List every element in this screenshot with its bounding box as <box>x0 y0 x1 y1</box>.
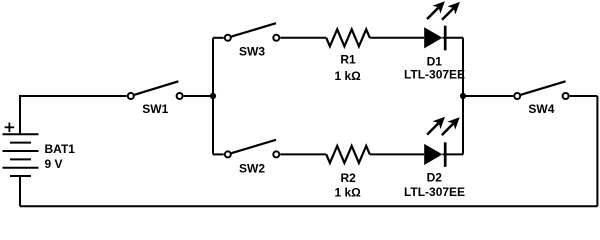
svg-text:SW1: SW1 <box>142 102 168 116</box>
resistor R1 <box>326 29 370 46</box>
plate long 1 <box>3 133 39 135</box>
switch SW4 <box>514 81 568 99</box>
wire: bottom rail <box>20 205 597 207</box>
wire: SW3 to R1 <box>280 37 326 39</box>
wire: branch vertical at node A <box>212 38 214 155</box>
LED D1 <box>423 0 464 50</box>
wire: battery top to SW1 <box>20 96 127 134</box>
resistor R2 <box>326 146 370 163</box>
svg-text:LTL-307EE: LTL-307EE <box>404 68 465 82</box>
arrow 2 of D2 <box>438 113 464 139</box>
wire: D2 to right vertical <box>442 153 463 155</box>
wire: node A to SW3 <box>213 37 224 39</box>
plate long 2 <box>3 150 39 152</box>
arrow 1 of D1 <box>423 0 449 23</box>
svg-text:R2: R2 <box>341 171 357 185</box>
switch SW1 <box>128 81 183 99</box>
arrow 2 of D1 <box>438 0 464 24</box>
wire: SW4 to right vertical <box>570 95 598 97</box>
wire: node A to SW2 <box>213 153 224 155</box>
battery plus sign <box>5 123 15 133</box>
svg-text:D1: D1 <box>427 54 443 68</box>
svg-text:SW3: SW3 <box>239 45 265 59</box>
svg-text:1 kΩ: 1 kΩ <box>334 69 361 83</box>
node A junction <box>210 93 216 99</box>
node B junction <box>460 93 466 99</box>
LED D2 <box>423 113 464 167</box>
svg-text:9 V: 9 V <box>45 157 63 171</box>
svg-text:1 kΩ: 1 kΩ <box>334 186 361 200</box>
wire: right branch vertical <box>462 38 464 155</box>
plate short 1 <box>10 142 31 144</box>
wire: SW1 to node A <box>184 95 213 97</box>
plate long 3 <box>3 167 39 169</box>
wire: left vertical battery bottom to bottom rail <box>19 176 21 206</box>
wire: right vertical <box>596 96 598 206</box>
plate short 2 <box>10 158 31 160</box>
plate short 3 <box>10 175 31 177</box>
svg-text:BAT1: BAT1 <box>45 142 76 156</box>
svg-text:SW2: SW2 <box>239 161 265 175</box>
wire: D1 to right vertical <box>442 37 463 39</box>
arrow 1 of D2 <box>423 113 449 139</box>
svg-text:SW4: SW4 <box>528 102 554 116</box>
battery BAT1 <box>3 134 39 176</box>
svg-text:R1: R1 <box>340 53 356 67</box>
wire: R2 to D2 <box>370 153 424 155</box>
switch SW2 <box>225 140 279 158</box>
wire: node B to SW4 <box>463 95 513 97</box>
svg-text:LTL-307EE: LTL-307EE <box>404 185 465 199</box>
wire: SW2 to R2 <box>280 153 326 155</box>
wire: R1 to D1 <box>370 37 424 39</box>
svg-text:D2: D2 <box>427 170 443 184</box>
switch SW3 <box>225 23 279 41</box>
